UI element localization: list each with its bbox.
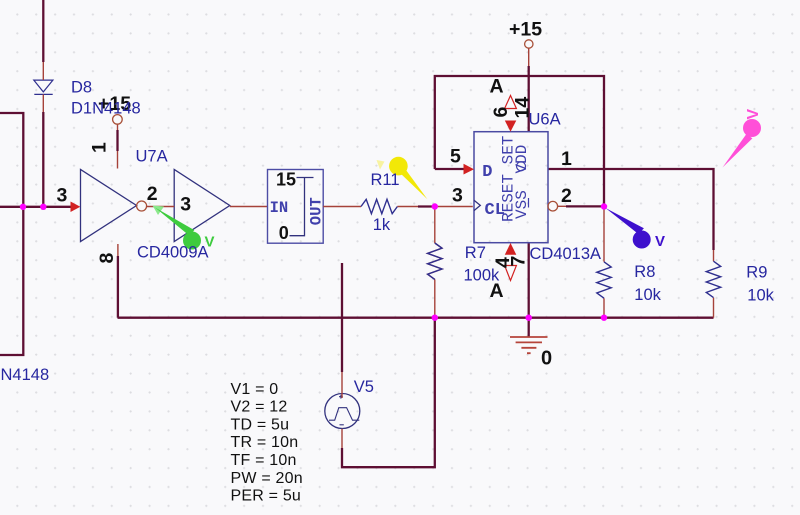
svg-text:TR = 10n: TR = 10n — [231, 434, 299, 451]
svg-text:5: 5 — [450, 146, 461, 168]
junction bus/R8 — [601, 315, 607, 321]
junction at left wire — [20, 204, 26, 210]
resistor R9 — [713, 250, 715, 318]
black labels — [57, 19, 573, 370]
svg-text:TF = 10n: TF = 10n — [231, 452, 297, 469]
junction Qbar/R8 — [601, 203, 607, 209]
svg-text:7: 7 — [508, 256, 530, 267]
wire — [118, 317, 714, 319]
Qbar bar — [528, 198, 530, 208]
arrow gate1 input — [71, 202, 81, 213]
wire — [0, 206, 71, 208]
pin 1 stub U7A — [117, 124, 119, 169]
resistor R8 — [603, 207, 605, 318]
pin2 bubble — [548, 201, 558, 211]
limiter block 0/15 — [268, 170, 324, 244]
wire — [42, 0, 44, 62]
wire — [435, 206, 473, 208]
probe green — [153, 206, 215, 251]
wire — [230, 206, 268, 208]
CD4013A block U6A — [474, 132, 548, 243]
Qbar slash circle — [517, 162, 526, 171]
svg-text:VDD: VDD — [513, 145, 531, 174]
svg-text:V: V — [655, 233, 665, 250]
junction dots — [20, 203, 607, 321]
svg-text:PW = 20n: PW = 20n — [231, 470, 303, 487]
wire — [528, 66, 530, 132]
svg-text:2: 2 — [147, 183, 158, 205]
probe blue — [606, 208, 666, 250]
net flag A top — [505, 96, 517, 109]
wire — [341, 263, 343, 372]
wire — [528, 243, 530, 318]
svg-text:0: 0 — [541, 348, 552, 370]
net flag A bottom — [505, 266, 517, 281]
svg-text:CD4013A: CD4013A — [530, 245, 602, 263]
svg-text:3: 3 — [452, 185, 463, 207]
svg-text:OUT: OUT — [308, 197, 326, 225]
svg-text:V1 = 0: V1 = 0 — [231, 381, 279, 398]
probe yellow — [377, 157, 428, 199]
junction diode branch — [40, 204, 46, 210]
+15 bubble main — [525, 40, 533, 48]
svg-text:1k: 1k — [373, 216, 391, 234]
probe pink — [723, 109, 763, 168]
wire — [435, 76, 604, 207]
wire — [397, 206, 434, 208]
V5 leads — [341, 372, 343, 448]
arrow pin6 — [505, 121, 517, 132]
block bold numbers — [276, 170, 296, 244]
svg-text:R11: R11 — [371, 171, 400, 189]
svg-text:10k: 10k — [634, 286, 661, 304]
svg-text:3: 3 — [180, 194, 191, 216]
gate1 output bubble — [137, 201, 147, 211]
svg-text:1: 1 — [89, 142, 111, 153]
svg-text:2: 2 — [561, 185, 572, 207]
svg-text:R9: R9 — [746, 263, 767, 281]
svg-text:U6A: U6A — [529, 111, 561, 129]
svg-text:IN: IN — [270, 199, 289, 217]
wire — [566, 205, 604, 207]
svg-text:10k: 10k — [747, 287, 774, 305]
inverter U7A gate1 — [81, 170, 137, 242]
pulse source V5 — [325, 394, 360, 429]
svg-text:D: D — [482, 163, 492, 182]
chip inner mono labels — [270, 136, 531, 226]
wire — [435, 168, 464, 170]
blue reference labels — [1, 79, 775, 397]
resistor R7 — [428, 207, 442, 318]
clock wedge — [474, 200, 480, 210]
svg-text:R8: R8 — [634, 263, 655, 281]
svg-text:1: 1 — [561, 148, 572, 170]
wire — [558, 205, 566, 207]
V5 parameter text — [231, 381, 303, 505]
arrow pin5 — [464, 164, 475, 175]
resistor R11 — [361, 199, 397, 213]
svg-text:PER = 5u: PER = 5u — [231, 488, 302, 505]
svg-text:R7: R7 — [465, 244, 486, 262]
ground — [528, 318, 530, 337]
wire — [0, 113, 23, 355]
svg-text:+15: +15 — [509, 19, 542, 41]
svg-text:N4148: N4148 — [1, 366, 50, 384]
svg-text:8: 8 — [96, 253, 118, 264]
svg-text:3: 3 — [57, 185, 68, 207]
svg-text:TD = 5u: TD = 5u — [231, 416, 290, 433]
wire — [323, 206, 361, 208]
svg-text:D1N4148: D1N4148 — [71, 100, 141, 118]
svg-text:CD4009A: CD4009A — [137, 244, 209, 262]
wire — [418, 205, 435, 207]
diode D8 — [34, 80, 53, 94]
wire — [42, 112, 44, 207]
wire — [117, 256, 119, 318]
svg-text:15: 15 — [276, 170, 296, 190]
junction bus/ground — [526, 315, 532, 321]
wire — [147, 206, 175, 208]
step waveform inside block — [290, 178, 314, 236]
svg-text:V5: V5 — [354, 378, 374, 396]
wire — [549, 169, 714, 250]
svg-text:0: 0 — [279, 223, 289, 243]
wire — [528, 48, 530, 66]
svg-text:U7A: U7A — [136, 148, 168, 166]
svg-text:D8: D8 — [71, 79, 92, 97]
junction bus/R7/V5 — [432, 315, 438, 321]
svg-text:V2 = 12: V2 = 12 — [231, 399, 288, 416]
pin 8 stub U7A — [117, 244, 119, 256]
arrow pin4 — [505, 243, 517, 255]
junction R11/R7/CL — [432, 203, 438, 209]
inverter gate2 — [174, 170, 230, 242]
+15 bubble U7A — [113, 115, 123, 125]
svg-text:A: A — [490, 76, 504, 98]
svg-text:V: V — [745, 109, 762, 120]
svg-text:6: 6 — [490, 107, 512, 118]
wire — [116, 130, 118, 151]
svg-text:100k: 100k — [464, 267, 501, 285]
wire — [342, 318, 435, 468]
wire — [42, 62, 44, 112]
